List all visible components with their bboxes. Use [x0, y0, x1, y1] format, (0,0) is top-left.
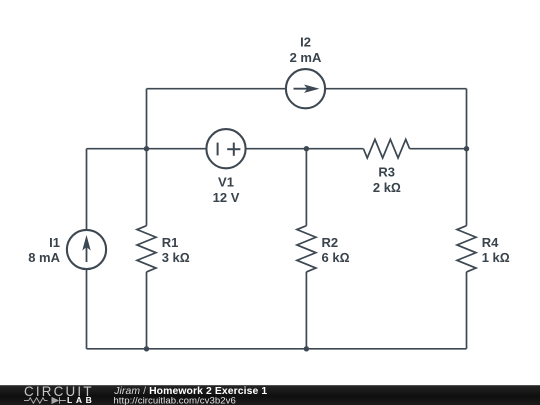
wire top-left horizontal (node to I2) [147, 88, 287, 90]
svg-text:2 kΩ: 2 kΩ [373, 180, 401, 195]
svg-text:LAB: LAB [67, 395, 95, 405]
wire R4 bottom lead [466, 272, 468, 349]
wire middle row right (R3 to right rail) [410, 148, 467, 150]
wire vertical x=146.5 top (top row to middle node) [146, 89, 148, 149]
wire left rail upper vertical (middle row to I1) [86, 149, 88, 230]
svg-text:12 V: 12 V [213, 190, 240, 205]
wire R1 top lead [146, 149, 148, 226]
junction node at R2 top (306.4,148.7) [304, 146, 309, 151]
svg-text:8 mA: 8 mA [28, 250, 60, 265]
svg-text:2 mA: 2 mA [290, 50, 322, 65]
svg-text:3 kΩ: 3 kΩ [162, 250, 190, 265]
current source I2 circle [286, 69, 325, 108]
svg-text:R1: R1 [162, 235, 179, 250]
wire bottom row [87, 348, 467, 350]
svg-text:6 kΩ: 6 kΩ [322, 250, 350, 265]
wire R4 top lead [466, 149, 468, 226]
wire R2 top lead [305, 149, 307, 226]
voltage source V1 plus sign [227, 143, 240, 156]
svg-text:R4: R4 [482, 235, 499, 250]
svg-text:R3: R3 [378, 164, 395, 179]
svg-text:1 kΩ: 1 kΩ [482, 250, 510, 265]
wire right rail vertical top (top row to middle node) [466, 89, 468, 149]
junction node at R2 bottom (306.4,348.8) [304, 346, 309, 351]
resistor R3 zigzag body (horizontal) [363, 139, 409, 158]
svg-text:I2: I2 [300, 35, 311, 50]
voltage source V1 circle [206, 129, 245, 168]
junction node at R1 bottom (146.5,348.8) [144, 346, 149, 351]
wire left rail lower vertical (I1 to bottom row) [86, 269, 88, 349]
wire middle row left (left rail to V1) [87, 148, 207, 150]
wire R1 bottom lead [146, 272, 148, 349]
wire middle row center (V1 to R3, through node B) [245, 148, 363, 150]
footer logo resistor squiggle and diode [24, 397, 66, 404]
footer logo diode triangle [52, 397, 60, 404]
resistor R2 zigzag body [297, 226, 316, 272]
current source I2 arrow [294, 85, 319, 92]
resistor R1 zigzag body [137, 226, 156, 272]
footer bar [0, 385, 540, 405]
wire R2 bottom lead [305, 272, 307, 349]
current source I1 arrow [83, 237, 90, 263]
voltage source V1 minus terminal bar [217, 143, 219, 156]
junction node at right rail middle (466.5,148.7) [464, 146, 469, 151]
svg-text:I1: I1 [49, 235, 60, 250]
svg-text:V1: V1 [218, 175, 234, 190]
junction node at R1 top (146.5,148.7) [144, 146, 149, 151]
resistor R4 zigzag body [457, 226, 476, 272]
current source I1 circle [67, 230, 106, 269]
svg-text:R2: R2 [322, 235, 339, 250]
svg-text:http://circuitlab.com/cv3b2v6: http://circuitlab.com/cv3b2v6 [113, 395, 235, 405]
wire top-right horizontal (I2 to right rail) [325, 88, 467, 90]
